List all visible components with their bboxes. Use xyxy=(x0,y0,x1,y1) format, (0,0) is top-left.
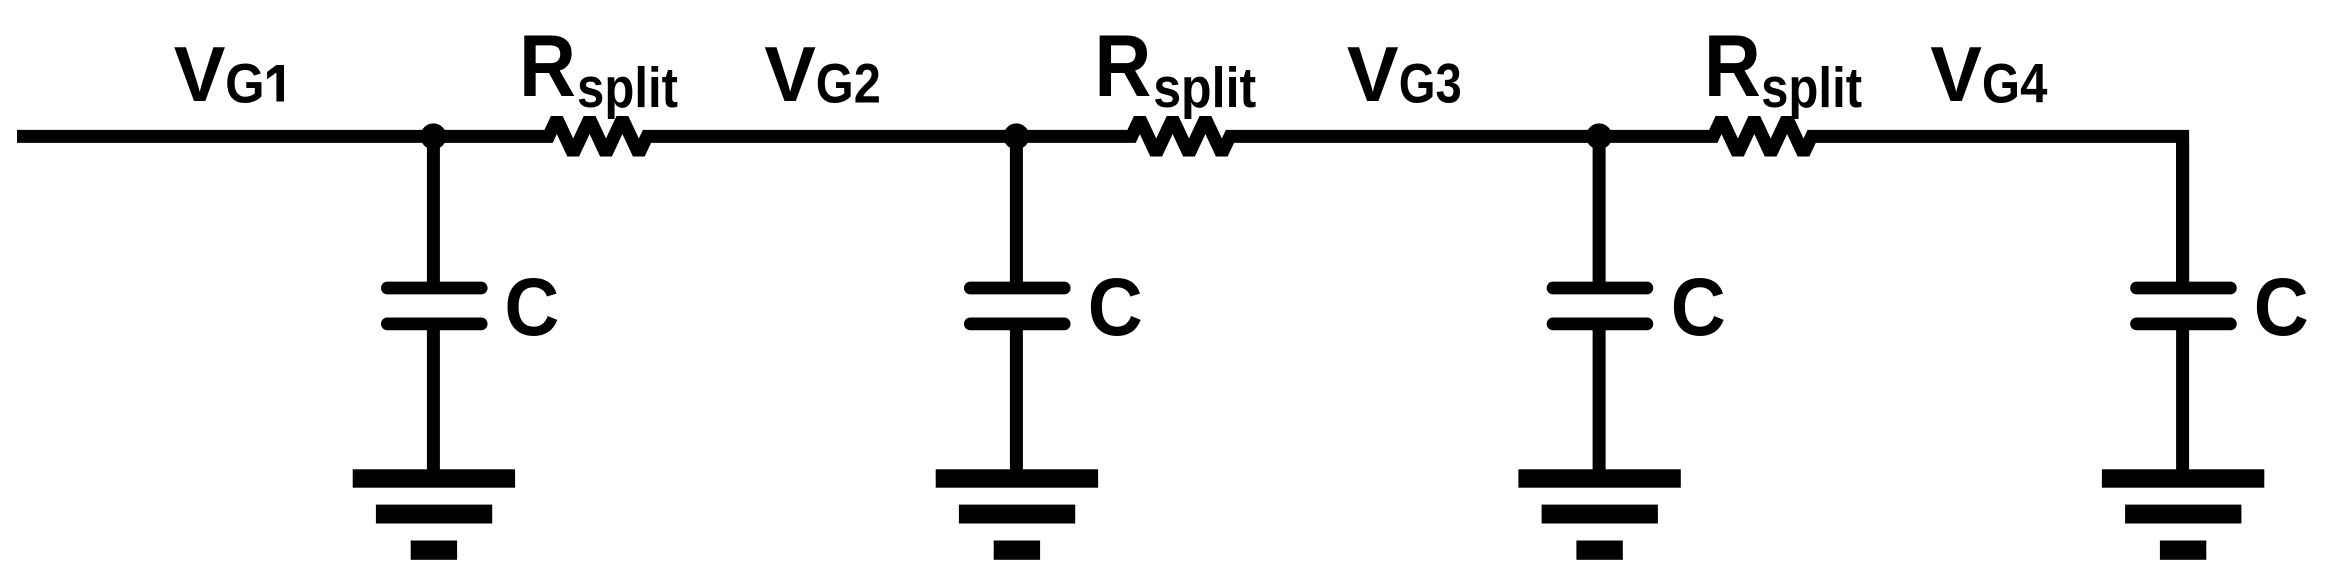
ground 2 xyxy=(936,469,1098,560)
svg-text:V: V xyxy=(1930,32,1982,118)
ground 1 xyxy=(353,469,515,560)
svg-text:V: V xyxy=(1347,32,1399,118)
svg-text:split: split xyxy=(1761,56,1862,120)
wire cap1 bottom lead xyxy=(427,324,440,478)
resistor R2 label Rsplit xyxy=(1094,16,1256,120)
node B junction dot VG2 xyxy=(1003,123,1029,149)
svg-text:G2: G2 xyxy=(816,52,881,115)
svg-text:C: C xyxy=(504,262,559,353)
svg-text:C: C xyxy=(1671,262,1726,353)
node VG4 label xyxy=(1930,32,2047,118)
ground 3 xyxy=(1518,469,1680,560)
resistor R3 label Rsplit xyxy=(1704,16,1862,120)
capacitor C1 xyxy=(387,288,481,324)
svg-text:split: split xyxy=(1153,56,1256,120)
node VG3 label xyxy=(1347,32,1462,118)
svg-text:R: R xyxy=(519,16,576,115)
svg-text:C: C xyxy=(2254,262,2309,353)
svg-text:V: V xyxy=(764,32,816,118)
resistor R1 label Rsplit xyxy=(519,16,678,120)
capacitor C3 xyxy=(1553,288,1647,324)
capacitor C4 xyxy=(2137,288,2231,324)
wire cap2 bottom lead xyxy=(1010,324,1023,478)
svg-text:G4: G4 xyxy=(1982,52,2048,115)
svg-text:V: V xyxy=(174,32,226,118)
node VG1 label xyxy=(174,32,284,118)
wire cap3 top lead xyxy=(1593,136,1606,288)
ground 4 xyxy=(2102,469,2264,560)
node VG2 label xyxy=(764,32,881,118)
wire cap2 top lead xyxy=(1010,136,1023,288)
svg-text:C: C xyxy=(1088,262,1143,353)
svg-text:R: R xyxy=(1094,16,1151,115)
node A junction dot VG1 xyxy=(420,123,446,149)
capacitor C2 xyxy=(970,288,1064,324)
wire cap4 bottom lead xyxy=(2176,324,2189,478)
wire main bus with resistor zigzags xyxy=(17,119,2183,288)
svg-text:G: G xyxy=(225,52,265,115)
svg-text:G3: G3 xyxy=(1399,52,1462,115)
node C junction dot VG3 xyxy=(1586,123,1612,149)
svg-text:R: R xyxy=(1704,16,1761,115)
wire cap1 top lead xyxy=(427,136,440,288)
svg-text:split: split xyxy=(577,56,678,120)
wire cap3 bottom lead xyxy=(1593,324,1606,478)
wire cap4 top lead xyxy=(2176,136,2189,288)
